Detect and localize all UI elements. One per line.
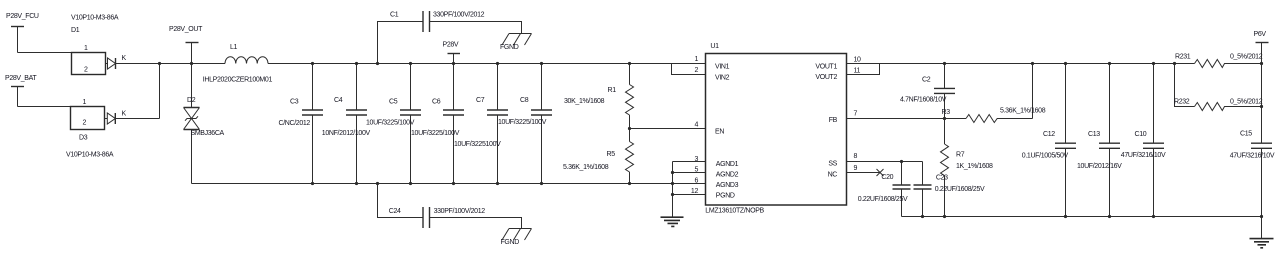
svg-text:C/NC/2012: C/NC/2012: [279, 120, 311, 127]
node C12 top: [1064, 62, 1067, 65]
svg-text:C1: C1: [390, 12, 399, 19]
resistor R7: [941, 119, 994, 217]
node R231 left junction: [1173, 62, 1176, 65]
svg-text:47UF/3216/10V: 47UF/3216/10V: [1121, 152, 1166, 159]
svg-text:P28V_BAT: P28V_BAT: [5, 75, 37, 82]
wire AGND2: [673, 172, 706, 174]
svg-text:D1: D1: [71, 27, 80, 34]
svg-text:2: 2: [694, 67, 698, 74]
node P6V rail junction: [1260, 62, 1263, 65]
svg-text:D3: D3: [79, 135, 88, 142]
svg-text:5.36K_1%/1608: 5.36K_1%/1608: [563, 164, 609, 171]
resistor R5: [563, 142, 634, 184]
svg-text:SMBJ36CA: SMBJ36CA: [191, 130, 225, 137]
node C5 bottom: [409, 182, 412, 185]
node C6 top: [452, 62, 455, 65]
chassis ground FGND bottom: [501, 229, 532, 247]
svg-text:V10P10-M3-86A: V10P10-M3-86A: [71, 15, 119, 22]
node C10 top: [1152, 62, 1155, 65]
pin VOUT2 (11): [815, 68, 860, 81]
svg-text:1: 1: [694, 56, 698, 63]
inductor L1: [203, 44, 273, 84]
svg-text:C8: C8: [520, 97, 529, 104]
svg-text:R3: R3: [942, 109, 951, 116]
capacitor C23: [914, 162, 986, 217]
node C24 branch: [376, 182, 379, 185]
svg-text:10UF/3225100V: 10UF/3225100V: [454, 141, 501, 148]
svg-text:EN: EN: [715, 128, 724, 135]
wire P28V_FCU to D1: [18, 52, 72, 54]
svg-text:0.1UF/1005/50V: 0.1UF/1005/50V: [1022, 152, 1069, 159]
svg-text:LMZ13610TZ/NOPB: LMZ13610TZ/NOPB: [705, 208, 764, 215]
svg-text:10UF/3225/100V: 10UF/3225/100V: [411, 130, 460, 137]
capacitor C12: [1022, 64, 1076, 217]
node C5 top: [409, 62, 412, 65]
svg-text:30K_1%/1608: 30K_1%/1608: [564, 98, 605, 105]
node R232 right junction: [1260, 105, 1263, 108]
capacitor C15: [1230, 131, 1275, 239]
svg-text:5.36K_1%/1608: 5.36K_1%/1608: [1000, 108, 1046, 115]
svg-text:C3: C3: [290, 98, 299, 105]
svg-text:R231: R231: [1175, 53, 1191, 60]
svg-text:330PF/100V/2012: 330PF/100V/2012: [433, 12, 485, 19]
node C20 top junction: [900, 160, 903, 163]
wire node to L1: [160, 63, 226, 65]
node AGND3 rail junction: [671, 182, 674, 185]
node C13 bottom: [1108, 215, 1111, 218]
node C13 top: [1108, 62, 1111, 65]
node R3 riser top: [1031, 62, 1034, 65]
svg-text:10: 10: [854, 56, 862, 63]
svg-text:12: 12: [691, 188, 699, 195]
svg-text:P28V: P28V: [443, 41, 459, 48]
capacitor C13: [1077, 64, 1122, 217]
node C8 top: [540, 62, 543, 65]
resistor R231: [1175, 53, 1263, 67]
svg-text:0.22UF/1608/25V: 0.22UF/1608/25V: [858, 196, 908, 203]
node C4 bottom: [355, 182, 358, 185]
svg-text:C23: C23: [936, 174, 948, 181]
node C23 bottom: [921, 215, 924, 218]
svg-text:PGND: PGND: [716, 193, 735, 200]
svg-text:C5: C5: [389, 99, 398, 106]
svg-text:L1: L1: [230, 44, 238, 51]
pin AGND2 (5): [694, 167, 738, 179]
svg-text:K: K: [122, 55, 127, 62]
node R5 bottom: [628, 182, 631, 185]
ground symbol bottom right: [1250, 239, 1274, 248]
wire D1 cathode to node: [116, 63, 160, 65]
pin VOUT1 (10): [815, 56, 861, 70]
svg-text:C20: C20: [881, 174, 893, 181]
svg-text:9: 9: [854, 165, 858, 172]
capacitor C20: [858, 162, 911, 217]
svg-text:AGND1: AGND1: [716, 161, 739, 168]
node C15 bottom rail junction: [1260, 215, 1263, 218]
wire EN: [630, 128, 706, 130]
node C3 top: [311, 62, 314, 65]
node R1 top: [628, 62, 631, 65]
wire R232 branch: [1175, 64, 1195, 107]
svg-text:C24: C24: [389, 208, 401, 215]
svg-text:R1: R1: [608, 87, 617, 94]
svg-text:3: 3: [694, 156, 698, 163]
pin EN (4): [694, 122, 724, 136]
svg-text:VIN2: VIN2: [715, 74, 730, 81]
svg-text:FGND: FGND: [501, 239, 520, 246]
node FB junction: [943, 117, 946, 120]
svg-text:C13: C13: [1088, 131, 1100, 138]
svg-text:1K_1%/1608: 1K_1%/1608: [956, 163, 993, 170]
svg-text:C4: C4: [334, 97, 343, 104]
svg-text:VOUT2: VOUT2: [815, 74, 837, 81]
chassis ground FGND top: [500, 34, 532, 52]
wire VIN2 step: [672, 64, 706, 75]
wire SS: [847, 161, 923, 163]
node C10 bottom: [1152, 215, 1155, 218]
capacitor C2: [900, 64, 955, 119]
node P28V_OUT junction: [190, 62, 193, 65]
capacitor C1: [378, 11, 522, 64]
svg-text:VOUT1: VOUT1: [815, 63, 837, 70]
node C3 bottom: [311, 182, 314, 185]
wire AGND1: [673, 161, 706, 163]
svg-text:AGND3: AGND3: [716, 182, 739, 189]
svg-text:R7: R7: [956, 151, 965, 158]
TVS diode D2: [184, 64, 225, 184]
svg-text:7: 7: [854, 111, 858, 118]
wire VOUT1 rail: [847, 63, 1195, 65]
pin AGND1 (3): [694, 156, 738, 168]
wire L1 to U1 (main rail): [268, 63, 706, 65]
capacitor C5: [366, 64, 421, 184]
pin AGND3 (6): [694, 177, 738, 189]
wire VOUT2 step: [847, 64, 880, 75]
node C6 bottom: [452, 182, 455, 185]
svg-text:8: 8: [854, 153, 858, 160]
svg-text:0.22UF/1608/25V: 0.22UF/1608/25V: [935, 186, 985, 193]
svg-text:IHLP2020CZER100M01: IHLP2020CZER100M01: [203, 76, 273, 83]
node C2 top: [943, 62, 946, 65]
capacitor C4: [322, 64, 371, 184]
pin NC (9): [828, 165, 858, 178]
wire AGND bus vertical: [672, 162, 674, 218]
resistor R3: [942, 64, 1046, 123]
capacitor C7: [454, 64, 508, 184]
svg-text:10NF/2012/100V: 10NF/2012/100V: [322, 130, 371, 137]
svg-text:6: 6: [694, 177, 698, 184]
svg-text:C12: C12: [1043, 131, 1055, 138]
node EN junction: [628, 127, 631, 130]
svg-text:VIN1: VIN1: [715, 63, 730, 70]
svg-text:C2: C2: [922, 77, 931, 84]
node R7 bottom: [943, 215, 946, 218]
svg-text:R5: R5: [607, 151, 616, 158]
svg-text:11: 11: [854, 68, 861, 75]
svg-text:1: 1: [83, 99, 87, 106]
svg-text:FGND: FGND: [500, 44, 519, 51]
svg-text:C7: C7: [476, 97, 485, 104]
svg-text:AGND2: AGND2: [716, 172, 739, 179]
node C12 bottom: [1064, 215, 1067, 218]
ground symbol U1: [661, 217, 684, 226]
svg-text:FB: FB: [829, 117, 838, 124]
power flag P28V_BAT: [5, 75, 37, 107]
node C7 bottom: [496, 182, 499, 185]
wire P28V_BAT to D3: [18, 106, 71, 108]
bottom rail left section: [192, 183, 706, 185]
svg-text:U1: U1: [710, 43, 719, 50]
svg-text:1: 1: [84, 45, 88, 52]
wire NC with no-connect X: [847, 169, 884, 176]
resistor R232: [1174, 98, 1263, 110]
svg-text:C10: C10: [1135, 131, 1147, 138]
svg-text:C6: C6: [432, 99, 441, 106]
svg-text:SS: SS: [828, 161, 837, 168]
node C7 top: [496, 62, 499, 65]
node C8 bottom: [540, 182, 543, 185]
power flag P28V_OUT: [169, 26, 203, 63]
power flag P28V: [443, 41, 461, 63]
diode D1: [71, 15, 127, 75]
svg-text:D2: D2: [187, 97, 196, 104]
svg-text:P28V_FCU: P28V_FCU: [6, 13, 39, 20]
node C1 branch: [376, 62, 379, 65]
pin VIN2 (2): [694, 67, 729, 81]
svg-text:4.7NF/1608/10V: 4.7NF/1608/10V: [900, 97, 947, 104]
svg-text:10UF/2012/16V: 10UF/2012/16V: [1077, 163, 1122, 170]
capacitor C6: [411, 64, 464, 184]
svg-text:0_5%/2012: 0_5%/2012: [1230, 98, 1263, 105]
op-amp U1 LMZ13610TZ/NOPB regulator box: [705, 43, 846, 215]
resistor R1: [564, 64, 634, 116]
capacitor C10: [1121, 64, 1166, 217]
wire D3 cathode to node: [115, 64, 159, 119]
svg-text:P6V: P6V: [1254, 31, 1267, 38]
wire FB: [847, 118, 945, 120]
pin VIN1 (1): [694, 56, 729, 70]
pin FB (7): [829, 111, 858, 124]
power flag P28V_FCU: [6, 13, 39, 52]
svg-text:47UF/3216/10V: 47UF/3216/10V: [1230, 153, 1275, 160]
svg-text:330PF/100V/2012: 330PF/100V/2012: [434, 208, 486, 215]
svg-text:2: 2: [83, 120, 87, 127]
wire right column: [1261, 64, 1263, 144]
svg-text:NC: NC: [828, 171, 838, 178]
wire PGND: [673, 194, 706, 196]
svg-text:4: 4: [694, 122, 698, 129]
capacitor C24: [378, 184, 522, 229]
pin PGND (12): [691, 188, 735, 200]
node PGND junction: [671, 193, 674, 196]
wire R1 to R5: [629, 115, 631, 142]
svg-text:C15: C15: [1240, 131, 1252, 138]
svg-text:2: 2: [84, 67, 88, 74]
node diode-OR junction: [158, 62, 161, 65]
capacitor C8: [498, 64, 552, 184]
svg-text:R232: R232: [1174, 98, 1190, 105]
svg-text:0_5%/2012: 0_5%/2012: [1230, 53, 1263, 60]
power flag P6V: [1254, 31, 1269, 64]
node AGND2 junction: [671, 171, 674, 174]
svg-text:10UF/3225/100V: 10UF/3225/100V: [366, 120, 415, 127]
bottom rail right section: [902, 216, 1262, 218]
node C4 top: [355, 62, 358, 65]
diode D3: [66, 99, 127, 159]
svg-text:K: K: [122, 111, 127, 118]
svg-text:V10P10-M3-86A: V10P10-M3-86A: [66, 152, 114, 159]
svg-text:10UF/3225/100V: 10UF/3225/100V: [498, 119, 547, 126]
pin SS (8): [828, 153, 857, 168]
svg-text:P28V_OUT: P28V_OUT: [169, 26, 203, 33]
capacitor C3: [279, 64, 324, 184]
